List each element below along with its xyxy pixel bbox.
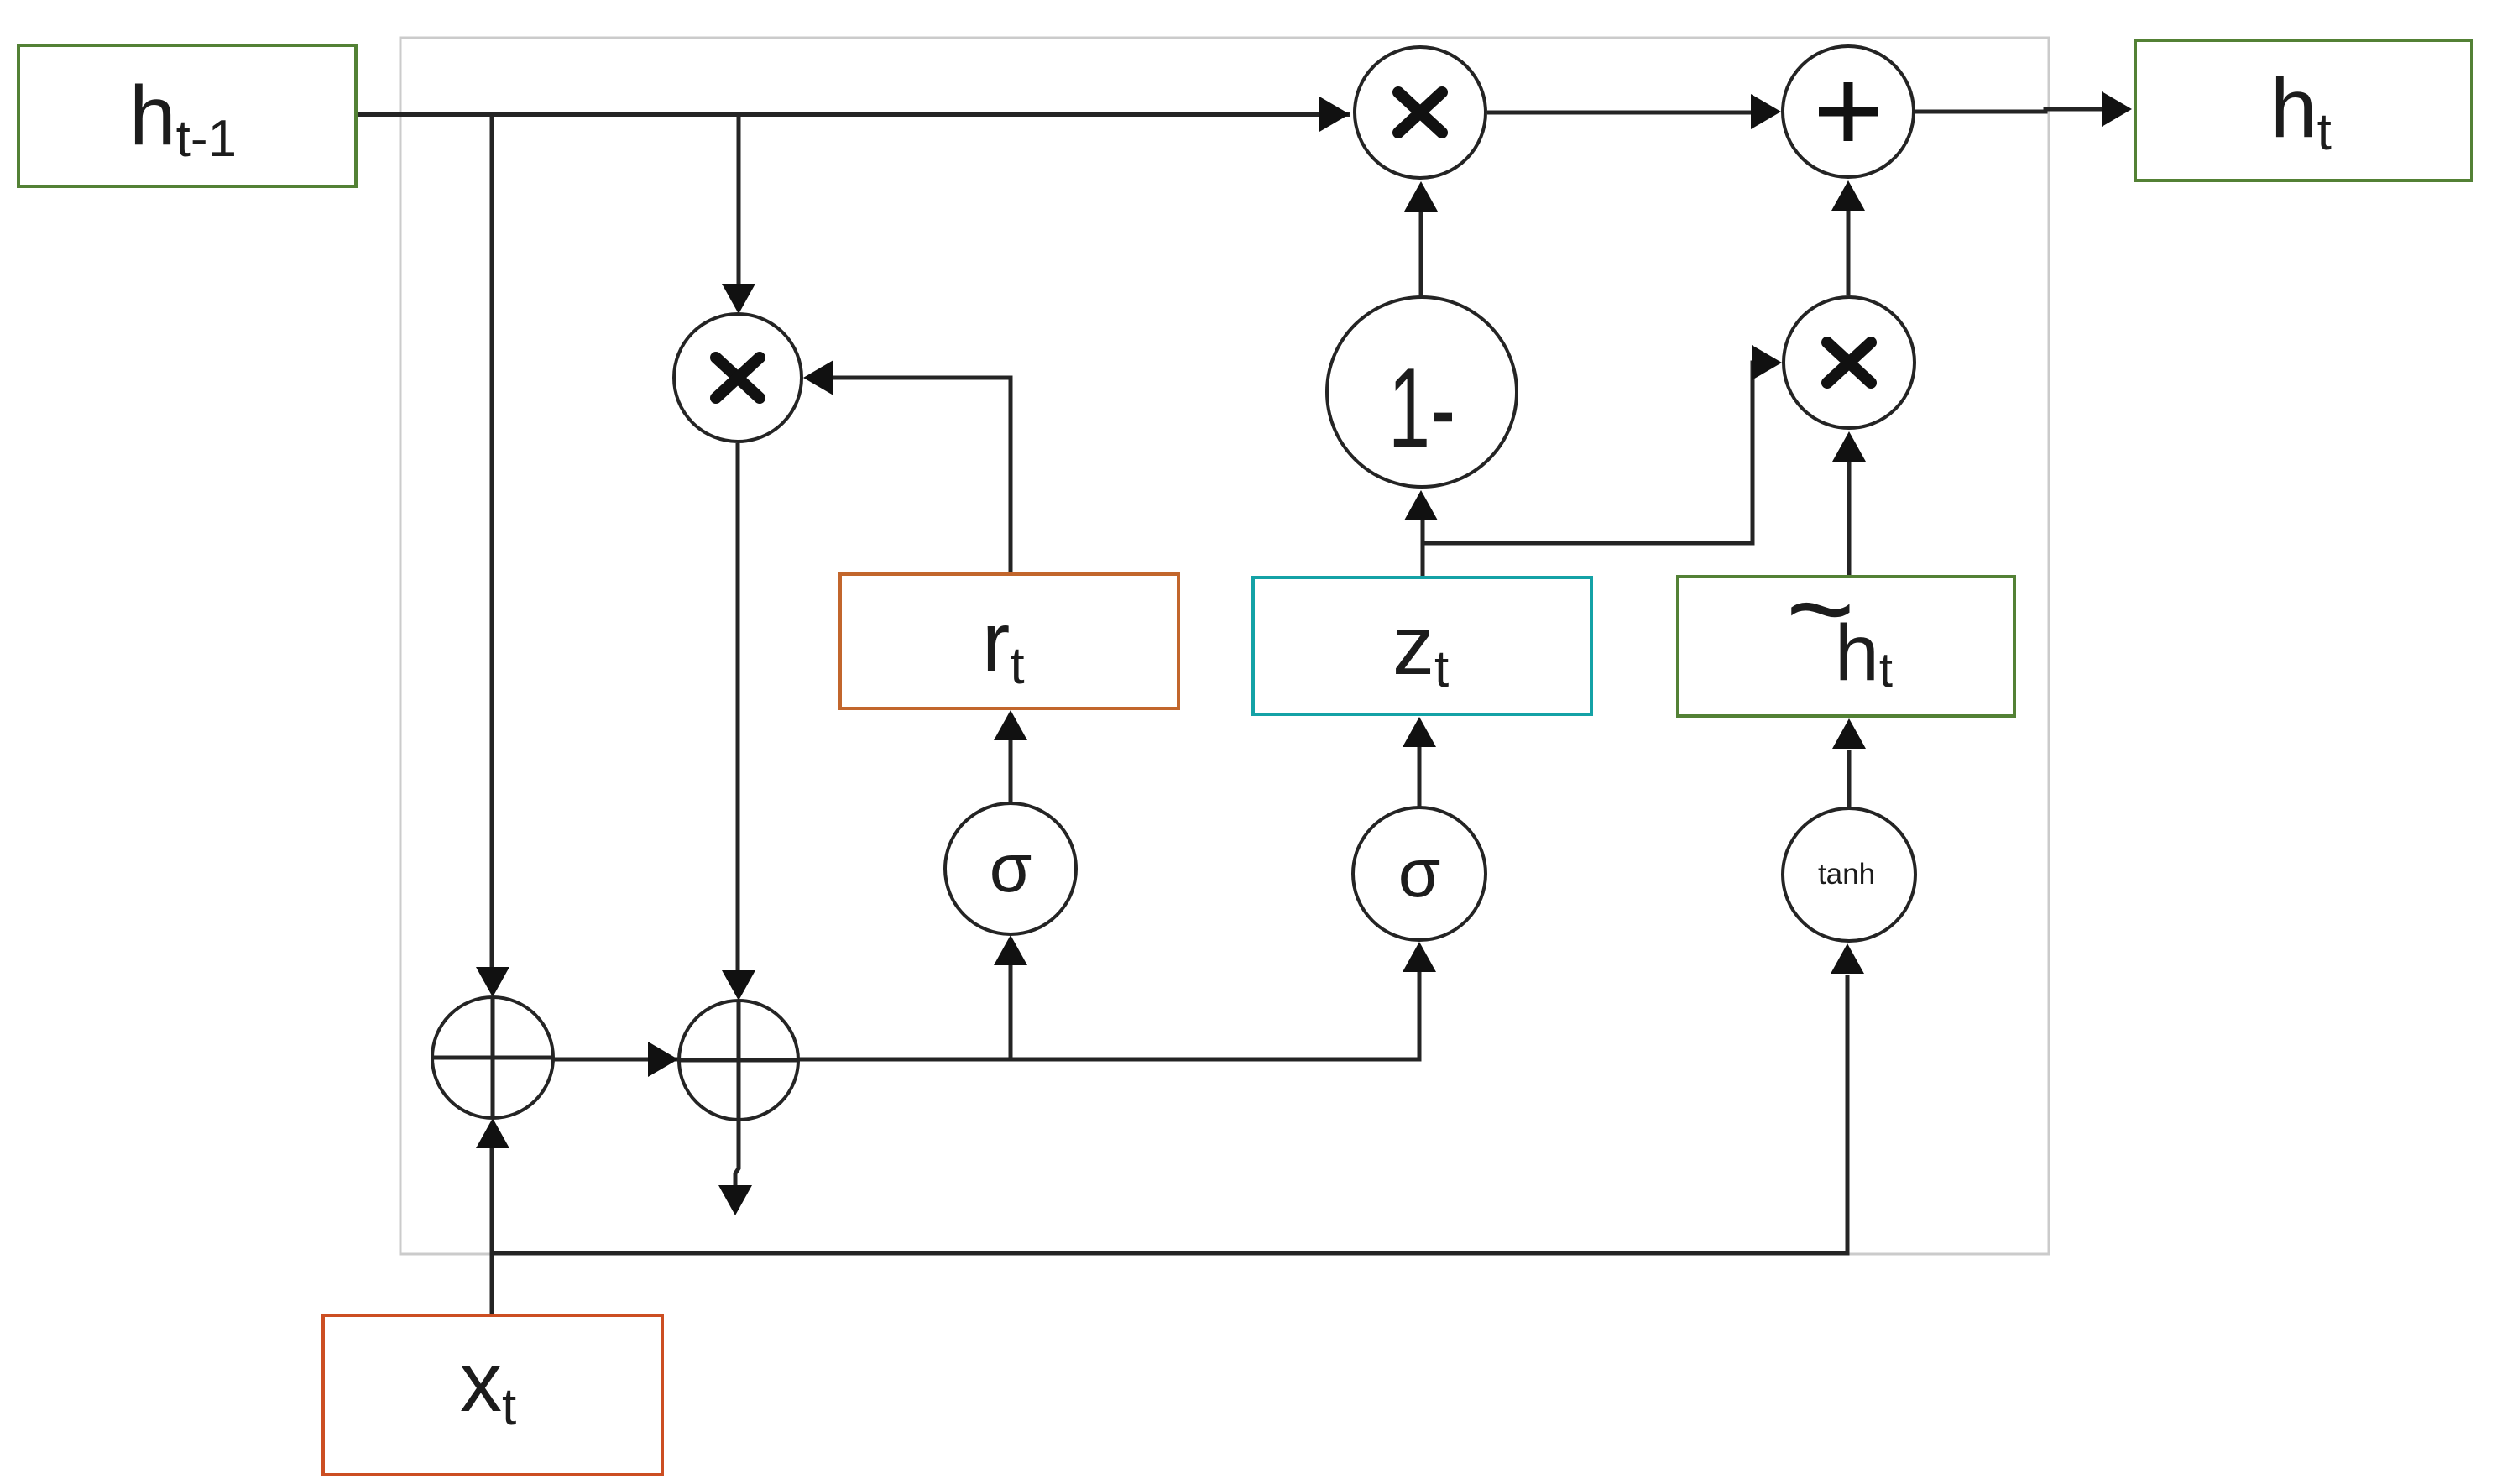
node r_t box [840, 574, 1178, 708]
wire vertical from h(t-1) line down to times-left [737, 114, 741, 289]
wire h(t-1) top horizontal [356, 112, 1350, 117]
arrowhead into times-top bottom [1404, 181, 1438, 212]
wire sigma-r up to r_t [1009, 739, 1013, 802]
sigma-r circle [945, 803, 1076, 934]
wire concat row horizontal to sigma-z [553, 972, 1419, 1059]
arrowhead into times-top left [1319, 97, 1350, 132]
arrowhead into times-left top [722, 284, 755, 314]
arrowhead into tanh bottom [1831, 943, 1864, 974]
node h(t-1) box [18, 45, 356, 186]
times-right circle [1784, 297, 1915, 428]
wire vertical from h(t-1) line down to plus-circle1 [490, 114, 494, 969]
concat plus-circle1 [432, 997, 553, 1118]
node x_t box [323, 1315, 662, 1475]
arrowhead into plus-circle2 left [648, 1042, 678, 1077]
one-minus circle [1327, 297, 1517, 487]
wire r_t to times-left [830, 378, 1011, 574]
wire tanh up to h~t [1847, 750, 1852, 807]
wire concat row to sigma-r [1009, 964, 1013, 1059]
tanh circle [1783, 808, 1915, 941]
arrowhead into times-right bottom [1832, 431, 1866, 462]
arrowhead into plus-top left [1751, 94, 1781, 129]
arrowhead into h_t left [2102, 91, 2132, 127]
wire plus-top to h_t [1915, 109, 2103, 112]
arrowhead into plus-top bottom [1831, 180, 1865, 211]
arrowhead into z_t bottom [1403, 717, 1436, 747]
plus-top circle [1783, 46, 1914, 177]
wire times-left output down to plus-circle2 [736, 443, 740, 975]
arrowhead into sigma-r bottom [994, 935, 1027, 965]
wire z_t branch to times-right [1423, 363, 1754, 543]
node h_t box [2135, 40, 2472, 180]
times-left circle [674, 314, 802, 442]
node h~t box [1678, 542, 2014, 716]
arrowhead into plus-circle1 bottom [476, 1118, 509, 1148]
wire sigma-z up to z_t [1418, 746, 1422, 807]
svg-text:σ: σ [990, 830, 1032, 907]
svg-text:1-: 1- [1388, 344, 1455, 472]
sigma-z circle [1353, 807, 1486, 940]
svg-text:tanh: tanh [1818, 858, 1875, 891]
wire times-top to plus-top [1487, 111, 1753, 115]
concat plus-circle2 [679, 1001, 798, 1120]
arrowhead dangling below plus-circle2 [718, 1185, 752, 1215]
arrowhead into r_t bottom [994, 710, 1027, 740]
arrowhead into times-left right [803, 360, 833, 395]
wire plus-circle2 dangling down [735, 1120, 739, 1187]
arrowhead into sigma-z bottom [1403, 942, 1436, 972]
wire one-minus up to times-top [1419, 210, 1423, 297]
outer GRU cell box [400, 38, 2049, 1254]
arrowhead into one-minus bottom [1404, 490, 1438, 520]
arrowhead into plus-circle1 top [476, 967, 509, 997]
wire h~t up to times-right [1847, 462, 1852, 577]
arrowhead into plus-circle2 top [722, 970, 755, 1001]
wire x_t up to plus-circle1 [490, 1145, 494, 1315]
wire times-right up to plus-top [1847, 211, 1851, 295]
node z_t box [1253, 577, 1591, 714]
wire bottom x_t row to tanh [492, 975, 1847, 1253]
times-top circle [1355, 47, 1486, 178]
svg-text:σ: σ [1398, 835, 1441, 912]
arrowhead into h~t bottom [1832, 718, 1866, 749]
wire z_t up to one-minus [1421, 518, 1425, 577]
arrowhead into times-right left [1752, 345, 1782, 380]
